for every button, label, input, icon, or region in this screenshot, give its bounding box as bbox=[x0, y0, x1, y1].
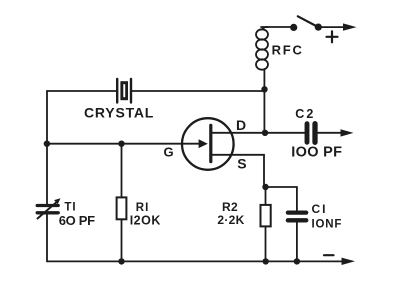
svg-text:RI: RI bbox=[136, 202, 150, 214]
svg-text:2·2K: 2·2K bbox=[217, 213, 244, 227]
svg-text:S: S bbox=[237, 155, 246, 171]
svg-text:G: G bbox=[164, 145, 174, 160]
svg-text:RFC: RFC bbox=[272, 43, 304, 58]
svg-text:6O PF: 6O PF bbox=[59, 213, 95, 228]
svg-text:I2OK: I2OK bbox=[130, 214, 161, 228]
svg-text:IOO PF: IOO PF bbox=[291, 144, 342, 160]
svg-text:D: D bbox=[236, 117, 246, 133]
svg-text:CI: CI bbox=[312, 202, 328, 216]
svg-text:TI: TI bbox=[64, 202, 76, 214]
svg-text:IONF: IONF bbox=[312, 219, 343, 231]
svg-text:CRYSTAL: CRYSTAL bbox=[84, 105, 154, 121]
svg-text:C2: C2 bbox=[295, 107, 315, 121]
